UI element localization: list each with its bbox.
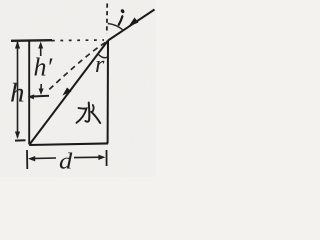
sight line (dashed, apparent ray extension) [47, 43, 106, 93]
refracted ray arrowhead [63, 88, 72, 96]
h' up arrow shaft [40, 44, 42, 56]
d right tick [106, 150, 108, 166]
normal (dashed, above surface) [106, 4, 108, 35]
label i [119, 9, 125, 25]
apparent depth tick left arrowhead [28, 94, 34, 99]
h' down arrow shaft [40, 84, 42, 92]
d left tick [26, 150, 28, 169]
tank bottom edge [29, 143, 108, 145]
h down arrowhead [15, 132, 20, 140]
refracted ray [30, 41, 109, 145]
paper noise texture [0, 0, 1, 1]
tank left edge [28, 41, 30, 145]
angle r arc [98, 54, 108, 58]
top reference bar (solid part of surface line) [11, 39, 52, 42]
apparent depth bottom tick [30, 95, 50, 98]
h' up arrowhead [38, 42, 43, 49]
h measure line [17, 42, 19, 138]
water surface dashed segment [52, 39, 104, 42]
angle i arc [108, 24, 124, 31]
tank right edge [107, 41, 109, 144]
paper background [0, 0, 156, 177]
h' down arrowhead [39, 89, 44, 96]
label 水 (hand-drawn strokes) [77, 103, 101, 124]
incident ray arrowhead [129, 18, 139, 27]
incident ray [108, 10, 155, 41]
d left arrow [31, 157, 57, 160]
h up arrowhead [15, 41, 20, 49]
h bottom tick [15, 139, 26, 141]
d right arrow [74, 156, 103, 158]
